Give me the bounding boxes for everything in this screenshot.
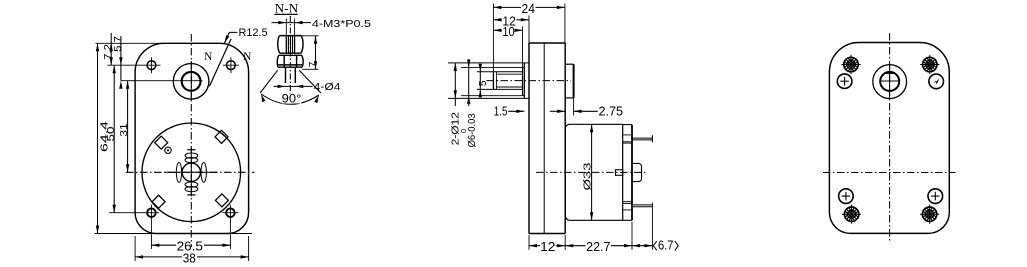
svg-text:50: 50: [105, 126, 117, 141]
svg-text:N: N: [243, 51, 252, 63]
svg-text:2.75: 2.75: [599, 103, 624, 118]
svg-text:4-M3*P0.5: 4-M3*P0.5: [312, 18, 371, 30]
svg-text:R12.5: R12.5: [239, 27, 268, 39]
svg-text:1.5: 1.5: [494, 103, 508, 118]
svg-text:5: 5: [477, 80, 489, 86]
svg-text:N-N: N-N: [275, 1, 299, 16]
svg-text:24: 24: [522, 1, 535, 16]
svg-text:4-Ø4: 4-Ø4: [314, 81, 341, 93]
svg-text:2-Ø12: 2-Ø12: [449, 112, 461, 146]
svg-text:31: 31: [118, 123, 130, 137]
svg-text:Ø33: Ø33: [582, 162, 594, 190]
svg-text:38: 38: [183, 250, 196, 265]
svg-text:6.7: 6.7: [658, 238, 674, 253]
svg-text:0: 0: [459, 129, 468, 133]
svg-text:N: N: [204, 51, 213, 63]
svg-text:10: 10: [502, 24, 514, 39]
svg-text:12: 12: [540, 239, 555, 254]
svg-text:22.7: 22.7: [586, 239, 610, 254]
svg-text:90°: 90°: [282, 91, 302, 105]
svg-text:7: 7: [307, 61, 319, 67]
svg-text:5.7: 5.7: [112, 36, 124, 52]
